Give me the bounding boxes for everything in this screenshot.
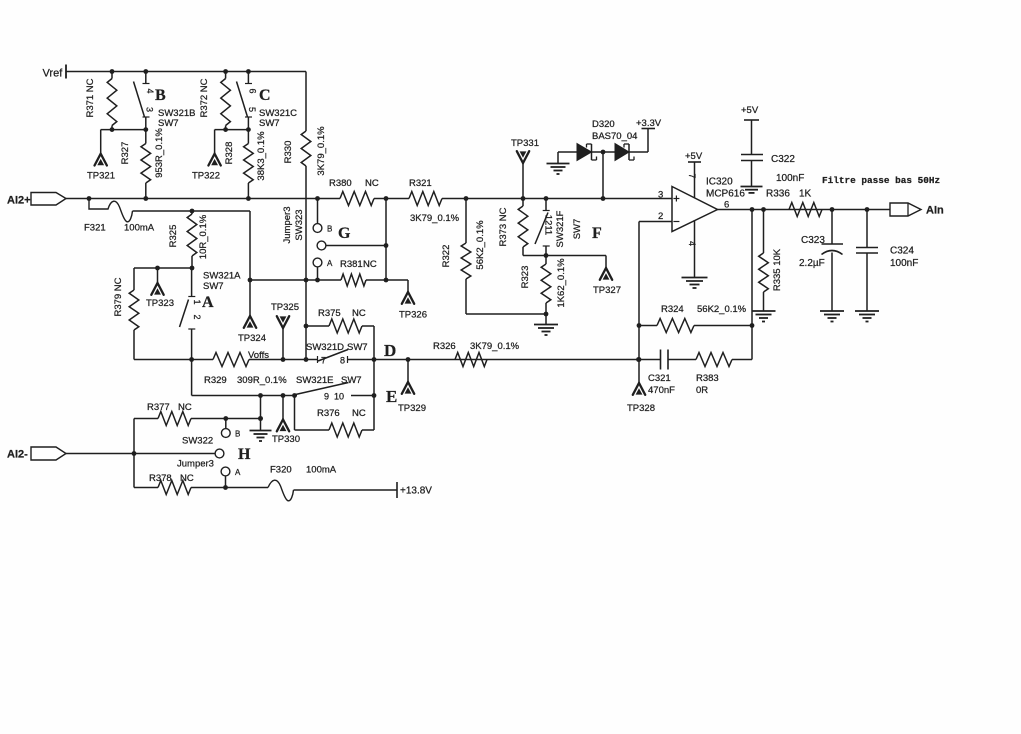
svg-text:R381: R381 [340, 259, 363, 270]
svg-text:R330: R330 [283, 141, 294, 164]
switch SW321C blade [237, 82, 248, 118]
svg-text:F320: F320 [270, 465, 292, 476]
svg-text:R377: R377 [147, 402, 170, 413]
svg-text:SW7: SW7 [572, 219, 583, 240]
capacitor C322 supply [741, 105, 759, 154]
svg-text:R324: R324 [661, 304, 684, 315]
label A (SW322) [235, 468, 241, 477]
wire diode node to rail [602, 152, 604, 199]
testpoint TP328 [627, 360, 655, 415]
svg-text:+13.8V: +13.8V [400, 486, 432, 497]
svg-text:AI2-: AI2- [7, 449, 28, 461]
resistor R321 [409, 178, 442, 206]
section letter E [386, 387, 397, 406]
svg-text:9: 9 [324, 392, 329, 402]
op-amp pin 4 ground [682, 220, 708, 288]
svg-text:SW321E: SW321E [296, 375, 334, 386]
resistor R322 [441, 199, 471, 315]
svg-text:A: A [235, 468, 241, 477]
svg-text:TP323: TP323 [146, 298, 174, 309]
svg-text:C324: C324 [890, 246, 914, 257]
connector AIn [890, 203, 944, 217]
svg-text:SW322: SW322 [182, 436, 213, 447]
value 3K79_0.1% (R321) [410, 213, 460, 224]
pin number 7 [687, 173, 697, 178]
svg-text:H: H [238, 446, 251, 463]
resistor R375 (NC) [318, 308, 366, 333]
svg-text:R335 10K: R335 10K [772, 248, 783, 291]
pin number 3 [658, 190, 663, 201]
pin number 2 (SW321A) [192, 314, 202, 319]
wire Voffs row [134, 357, 318, 362]
wire output feedback vertical [751, 210, 753, 360]
svg-text:D: D [384, 341, 396, 360]
resistor R336 [789, 203, 822, 217]
pin number 7 (SW321D) [321, 356, 326, 366]
capacitor C324 [856, 210, 878, 311]
ground R335 [752, 311, 776, 322]
label R324 56K2_0.1% [661, 304, 747, 315]
wire R375 row [304, 324, 374, 329]
ground C322 [741, 187, 763, 193]
svg-text:R336: R336 [766, 189, 790, 200]
op-amp minus mark [673, 221, 679, 223]
jumper SW323 common circle [317, 241, 326, 250]
testpoint TP329 [398, 360, 426, 415]
wire F321 branch down [249, 211, 251, 280]
svg-text:Voffs: Voffs [248, 350, 269, 361]
switch SW321C pin 5 stub [245, 117, 252, 130]
svg-text:100mA: 100mA [306, 465, 337, 476]
testpoint TP323 [146, 268, 174, 309]
wire SW323 common to R321 node [326, 243, 388, 248]
connector AI2- [7, 447, 66, 461]
svg-text:4: 4 [687, 241, 697, 246]
wire R381 row [248, 278, 389, 283]
svg-text:SW7: SW7 [347, 342, 368, 353]
label F321 100mA [84, 223, 155, 234]
svg-text:56K2_0.1%: 56K2_0.1% [475, 220, 486, 270]
wire R377 row [134, 416, 263, 421]
wire node line TP322 [215, 127, 251, 132]
capacitor C323 [822, 210, 844, 311]
capacitor C322 [741, 155, 763, 187]
wire AI2- branch vertical [133, 419, 135, 488]
svg-text:Vref: Vref [43, 68, 64, 80]
resistor R323 [520, 256, 551, 315]
jumper SW323 pin B stub [317, 199, 319, 224]
svg-text:SW7: SW7 [203, 281, 224, 292]
svg-text:NC: NC [363, 259, 377, 270]
label C323 2.2uF [799, 235, 825, 269]
wire E row [192, 360, 377, 398]
testpoint TP331 [511, 138, 539, 199]
svg-text:SW321A: SW321A [203, 271, 241, 282]
svg-text:0R: 0R [696, 385, 708, 396]
section letter H [238, 446, 251, 463]
wire R330 vertical to switch D [305, 166, 307, 360]
section letter F [592, 225, 602, 242]
testpoint TP330 [272, 396, 300, 446]
label C321 470nF [648, 373, 675, 396]
label Jumper3 (SW322) [177, 459, 214, 470]
svg-text:G: G [338, 225, 351, 242]
wire x386 vertical [384, 196, 389, 280]
svg-text:R372 NC: R372 NC [199, 78, 210, 117]
pin number 5 (SW321C) [247, 107, 257, 112]
switch SW321A pin 1 stub [188, 268, 195, 297]
svg-text:MCP616: MCP616 [706, 189, 745, 200]
jumper SW322 pin B circle [221, 429, 230, 438]
resistor R373 (NC) [498, 199, 528, 256]
label R329 309R_0.1% [204, 375, 287, 386]
svg-text:TP330: TP330 [272, 434, 300, 445]
resistor R377 (NC) [147, 402, 192, 426]
svg-text:R376: R376 [317, 408, 340, 419]
value 10R_0.1% (R325) [198, 214, 209, 259]
jumper SW322 pin A stub [225, 476, 227, 488]
wire op-amp pin 2 [639, 221, 672, 223]
wire R378 row [134, 485, 268, 490]
svg-text:5: 5 [247, 107, 257, 112]
label IC320 MCP616 [706, 177, 745, 200]
wire AI2- to jumper [66, 451, 215, 456]
svg-text:3K79_0.1%: 3K79_0.1% [470, 341, 520, 352]
svg-text:10R_0.1%: 10R_0.1% [198, 214, 209, 259]
text Filtre passe bas 50Hz [822, 175, 940, 186]
svg-text:953R_0.1%: 953R_0.1% [154, 128, 165, 178]
pin number 1 (SW321A) [192, 299, 202, 304]
wire output rail [718, 207, 891, 212]
svg-text:56K2_0.1%: 56K2_0.1% [697, 304, 747, 315]
svg-text:6: 6 [248, 88, 258, 93]
svg-text:309R_0.1%: 309R_0.1% [237, 375, 287, 386]
svg-text:38K3_0.1%: 38K3_0.1% [256, 131, 267, 181]
switch SW321B pin 3 stub [143, 117, 150, 130]
svg-text:C323: C323 [801, 235, 825, 246]
resistor R330 [283, 72, 311, 167]
ground C324 [855, 311, 879, 322]
svg-text:+5V: +5V [685, 151, 703, 162]
section letter B [155, 87, 166, 104]
pin number 10 (SW321E) [334, 392, 344, 402]
svg-text:Filtre passe bas 50Hz: Filtre passe bas 50Hz [822, 175, 940, 186]
resistor R376 (NC) [317, 408, 366, 437]
svg-text:+3.3V: +3.3V [636, 118, 662, 129]
svg-text:1: 1 [192, 299, 202, 304]
pin number 4 (SW321B) [145, 88, 155, 93]
svg-text:8: 8 [340, 356, 345, 366]
svg-text:Jumper3: Jumper3 [282, 207, 293, 244]
svg-text:1K62_0.1%: 1K62_0.1% [556, 258, 567, 308]
testpoint TP327 [593, 256, 621, 297]
switch SW321F pin 11 stub [543, 246, 550, 256]
svg-text:TP331: TP331 [511, 138, 539, 149]
svg-text:TP321: TP321 [87, 171, 115, 182]
resistor R379 (NC) [113, 268, 139, 360]
svg-text:A: A [327, 259, 333, 268]
svg-text:R321: R321 [409, 178, 432, 189]
switch SW321B blade [134, 82, 145, 118]
label SW321E SW7 [296, 375, 362, 386]
power +13.8V [397, 482, 432, 498]
label SW322 [182, 436, 213, 447]
svg-text:470nF: 470nF [648, 385, 675, 396]
label Jumper3 SW323 [282, 207, 305, 244]
svg-text:BAS70_04: BAS70_04 [592, 131, 637, 142]
svg-text:2: 2 [192, 314, 202, 319]
connector AI2+ [7, 193, 66, 207]
section letter A [202, 294, 214, 311]
svg-text:C322: C322 [771, 154, 795, 165]
svg-text:TP328: TP328 [627, 403, 655, 414]
wire rail R321 to op-amp pin3 [442, 196, 672, 201]
svg-text:R383: R383 [696, 373, 719, 384]
wire node line TP321 [101, 127, 149, 132]
label R326 3K79_0.1% [433, 341, 520, 352]
switch SW321D pin 8 tick [347, 356, 349, 363]
testpoint TP322 [192, 130, 221, 182]
op-amp pin 7 supply [685, 151, 703, 198]
svg-text:100mA: 100mA [124, 223, 155, 234]
net label Vref [43, 65, 67, 80]
net label Voffs [248, 350, 269, 361]
label SW7 (F) [572, 219, 583, 240]
resistor R371 (NC) [85, 69, 117, 130]
svg-text:D320: D320 [592, 119, 615, 130]
pin number 3 (SW321B) [145, 107, 155, 112]
diode D320a [577, 144, 597, 161]
svg-text:R327: R327 [120, 142, 131, 165]
diode D320b [615, 144, 634, 161]
svg-text:R375: R375 [318, 308, 341, 319]
svg-text:10: 10 [334, 392, 344, 402]
svg-text:3: 3 [145, 107, 155, 112]
svg-text:1K: 1K [799, 189, 812, 200]
label B (SW322) [235, 430, 240, 439]
svg-text:F321: F321 [84, 223, 106, 234]
svg-text:7: 7 [687, 173, 697, 178]
svg-text:R323: R323 [520, 266, 531, 289]
label SW321F [555, 210, 566, 247]
svg-text:TP329: TP329 [398, 403, 426, 414]
svg-text:R378: R378 [149, 473, 172, 484]
svg-text:B: B [155, 87, 166, 104]
resistor R383 [696, 353, 752, 367]
resistor R372 (NC) [199, 69, 230, 130]
wire D320 anode [558, 151, 577, 153]
label SW321A SW7 [203, 271, 241, 293]
svg-text:TP324: TP324 [238, 333, 266, 344]
svg-text:IC320: IC320 [706, 177, 733, 188]
section letter C [259, 87, 271, 104]
resistor R328 [224, 130, 253, 199]
switch SW321A blade [180, 300, 189, 328]
svg-text:A: A [202, 294, 214, 311]
label SW321C SW7 [259, 108, 297, 129]
testpoint TP325 [271, 302, 299, 360]
pin numbers 12 11 (SW321F) [543, 215, 554, 235]
value 56K2_0.1% (R322) [475, 220, 486, 270]
power +3.3V [636, 118, 662, 129]
jumper SW323 pin A circle [313, 258, 322, 267]
switch SW321D blade [318, 350, 348, 362]
resistor R324 [639, 319, 754, 333]
svg-text:NC: NC [178, 402, 192, 413]
svg-text:R322: R322 [441, 245, 452, 268]
wire AI2+ rail segment 1 [66, 196, 340, 201]
svg-text:SW321F: SW321F [555, 210, 566, 247]
ground TP330 row [250, 396, 272, 442]
op-amp plus mark [673, 196, 679, 202]
label B (SW323) [327, 225, 332, 234]
resistor R381 (NC) [340, 259, 377, 286]
wire D320 cathode to +3.3V [629, 129, 648, 153]
jumper SW322 pin B stub [225, 419, 227, 429]
switch SW321F blade [535, 213, 548, 245]
resistor R380 (NC) [329, 178, 379, 206]
jumper SW323 pin A stub [317, 267, 319, 280]
resistor R329 [213, 353, 249, 367]
wire R375 leg / E leg vertical [373, 326, 375, 430]
pin number 8 (SW321D) [340, 356, 345, 366]
svg-text:C: C [259, 87, 271, 104]
svg-text:C321: C321 [648, 373, 671, 384]
switch SW321E blade [296, 383, 349, 395]
testpoint TP326 [386, 280, 427, 321]
label D320 BAS70_04 [592, 119, 637, 142]
wire TP323 junction line [134, 266, 194, 271]
svg-text:R329: R329 [204, 375, 227, 386]
label R336 1K [766, 189, 812, 200]
label F320 100mA [270, 465, 337, 476]
capacitor C321 [639, 350, 696, 370]
fuse F321 [89, 199, 250, 222]
svg-text:2: 2 [658, 211, 663, 222]
svg-text:NC: NC [352, 308, 366, 319]
switch SW321C pin 6 stub [245, 69, 252, 83]
switch SW321A pin 2 stub [188, 329, 195, 360]
label SW321D SW7 [306, 342, 368, 353]
wire switch F bottom row [523, 253, 606, 258]
svg-text:Jumper3: Jumper3 [177, 459, 214, 470]
wire R322 bottom to ground node [466, 312, 548, 317]
svg-text:7: 7 [321, 356, 326, 366]
svg-text:SW321D: SW321D [306, 342, 344, 353]
svg-text:3K79_0.1%: 3K79_0.1% [410, 213, 460, 224]
pin number 6 [724, 200, 729, 211]
svg-text:TP322: TP322 [192, 171, 220, 182]
pin number 2 [658, 211, 663, 222]
svg-text:4: 4 [145, 88, 155, 93]
svg-text:R325: R325 [168, 225, 179, 248]
svg-text:100nF: 100nF [890, 258, 918, 269]
fuse F320 [268, 480, 294, 501]
wire pin2 feedback vertical [637, 222, 642, 362]
svg-text:100nF: 100nF [776, 173, 804, 184]
wire Vref rail [66, 71, 306, 73]
wire diode junction [592, 150, 616, 155]
svg-text:NC: NC [352, 408, 366, 419]
svg-text:TP327: TP327 [593, 285, 621, 296]
section letter G [338, 225, 351, 242]
section letter D [384, 341, 396, 360]
svg-text:TP326: TP326 [399, 310, 427, 321]
ground C323 [820, 311, 844, 322]
svg-text:SW7: SW7 [259, 118, 280, 129]
svg-text:SW323: SW323 [294, 209, 305, 240]
svg-text:SW7: SW7 [341, 375, 362, 386]
jumper SW322 pin A circle [221, 467, 230, 476]
resistor R335 [759, 210, 783, 311]
label C322 100nF [771, 154, 804, 184]
svg-text:AIn: AIn [926, 205, 944, 217]
svg-text:R328: R328 [224, 142, 235, 165]
value 1K62_0.1% (R323) [556, 258, 567, 308]
wire R376 row [295, 396, 375, 431]
switch SW321B pin 4 stub [143, 69, 150, 83]
label SW321B SW7 [158, 108, 196, 129]
resistor R325 [168, 211, 197, 268]
svg-text:R380: R380 [329, 178, 352, 189]
label A (SW323) [327, 259, 333, 268]
jumper SW322 common circle [215, 449, 224, 458]
svg-text:SW7: SW7 [158, 118, 179, 129]
ground below R323 [534, 314, 558, 335]
pin number 9 (SW321E) [324, 392, 329, 402]
svg-text:NC: NC [365, 178, 379, 189]
switch SW321D pin 7 tick [317, 356, 319, 363]
resistor R327 [120, 130, 151, 199]
value 38K3_0.1% (R328) [256, 131, 267, 181]
svg-text:3K79_0.1%: 3K79_0.1% [316, 126, 327, 176]
svg-text:B: B [235, 430, 240, 439]
svg-text:F: F [592, 225, 602, 242]
resistor R326 [455, 353, 487, 367]
pin number 4 [687, 241, 697, 246]
svg-text:1211: 1211 [543, 215, 554, 235]
op-amp U IC320 triangle [672, 187, 718, 232]
svg-text:B: B [327, 225, 332, 234]
svg-text:AI2+: AI2+ [7, 195, 31, 207]
pin number 6 (SW321C) [248, 88, 258, 93]
wire D rail [348, 357, 641, 362]
svg-text:3: 3 [658, 190, 663, 201]
svg-text:R373 NC: R373 NC [498, 207, 509, 246]
testpoint TP324 [238, 280, 266, 344]
value 953R_0.1% (R327) [154, 128, 165, 178]
wire to +13.8V [294, 489, 398, 491]
testpoint TP321 [87, 130, 115, 182]
svg-text:E: E [386, 387, 397, 406]
svg-text:R326: R326 [433, 341, 456, 352]
wire rail R380-R321 [374, 198, 409, 200]
svg-text:2.2µF: 2.2µF [799, 258, 825, 269]
label R383 0R [696, 373, 719, 396]
switch SW321F pin 12 stub [543, 199, 550, 211]
svg-text:+5V: +5V [741, 105, 759, 116]
svg-text:R379 NC: R379 NC [113, 277, 124, 316]
svg-text:NC: NC [180, 473, 194, 484]
svg-text:TP325: TP325 [271, 302, 299, 313]
jumper SW323 pin B circle [313, 224, 322, 233]
resistor R378 (NC) [149, 473, 194, 495]
label C324 100nF [890, 246, 918, 270]
svg-text:R371 NC: R371 NC [85, 78, 96, 117]
ground D320 anode [547, 152, 570, 174]
value 3K79_0.1% (R330) [316, 126, 327, 176]
